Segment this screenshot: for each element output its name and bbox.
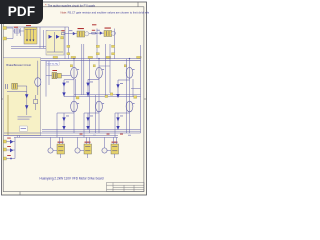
wire vertical x43.5: [43, 30, 45, 48]
wire box drop 2: [19, 136, 21, 138]
wire pad P1 to filter: [7, 27, 14, 29]
rectifier block A1: [24, 27, 37, 44]
opto C1: [52, 72, 61, 78]
wire q4 h113: [57, 112, 74, 114]
wire B1 right: [89, 33, 97, 35]
wire IC2 up3: [89, 137, 91, 144]
net label drop1 a: [67, 45, 70, 47]
net label leg3 gate: [124, 65, 126, 67]
wire R brake bottom: [35, 104, 37, 110]
transistor Q3 top: [126, 67, 133, 78]
relay label: [47, 61, 60, 65]
diode brake 1: [25, 94, 28, 98]
brake box yellow pad mid: [13, 79, 16, 81]
junction leg2 bus: [98, 58, 99, 59]
phase output line b: [74, 94, 141, 96]
zone tick bottom: [19, 192, 21, 195]
wire q4 gate v57: [56, 113, 58, 137]
bus label red 2: [107, 133, 110, 136]
value dash 8: [90, 115, 93, 118]
wire q5 gate v84: [83, 113, 85, 137]
brake booster box: [3, 58, 41, 136]
label A1 red: [26, 25, 31, 26]
label IC3 red: [112, 142, 118, 143]
label R B1 red: [61, 29, 64, 32]
net label bus 5: [137, 56, 142, 58]
transistor Q5 bottom: [96, 101, 103, 112]
filter block L1: [13, 28, 24, 39]
label R B2 red: [92, 29, 95, 32]
wire IC1 up3: [62, 137, 64, 144]
wire IC3 up2: [113, 137, 115, 144]
label box text dash: [21, 127, 26, 130]
opto driver B1: [77, 31, 89, 37]
label F1: [14, 27, 18, 28]
net label drop3 b: [112, 53, 115, 55]
diode chain leg1 bottom: [62, 113, 65, 130]
highlighted wire yellow: [7, 95, 9, 135]
transistor Q7 brake: [35, 78, 41, 87]
transistor IC3 circle: [102, 148, 107, 153]
resistor R B1: [61, 33, 65, 35]
control bus line1: [4, 134, 118, 136]
net label drop2 a: [96, 45, 99, 47]
brake note text line1: [18, 115, 32, 118]
net label drop1 b: [67, 53, 70, 55]
wire h66: [99, 65, 110, 67]
diode chain leg2 bottom: [86, 113, 89, 130]
diode D1: [26, 40, 28, 42]
wire P345 vertical: [14, 137, 16, 158]
value dash 5: [90, 81, 93, 84]
wire U2 internal vertical: [54, 32, 56, 52]
resistor R brake: [34, 100, 38, 104]
svg-text:Brake/Booster Circuit: Brake/Booster Circuit: [6, 63, 31, 67]
diode D2: [29, 40, 31, 42]
bus label red 3: [120, 133, 123, 136]
title block table: [107, 183, 145, 192]
net label phase 3: [134, 96, 137, 99]
phase output line: [64, 96, 141, 98]
wire P3: [6, 141, 15, 143]
wire leg2: [98, 59, 100, 133]
bottom bus line1: [42, 129, 141, 131]
diode B1 input: [73, 32, 76, 35]
wire IC2 down: [87, 154, 89, 158]
gate driver IC1: [57, 144, 65, 154]
bus label blue 2: [128, 134, 131, 137]
wire q6 gate v115: [114, 113, 116, 137]
brake note text line2: [18, 118, 30, 121]
value dash 7: [66, 115, 69, 118]
label B2 red: [105, 28, 111, 29]
gate line v95.5: [95, 95, 97, 133]
label IC1 red: [58, 142, 64, 143]
wire R brake top: [35, 95, 37, 100]
net label bus 4: [106, 56, 111, 58]
wire leg3: [129, 59, 131, 133]
gate line v89.5: [89, 59, 91, 133]
wire B2 right: [115, 32, 118, 34]
bottom bus line0: [42, 130, 141, 132]
value dash 1: [69, 29, 72, 32]
wire P4: [6, 149, 15, 151]
wire IC3 up1: [104, 137, 106, 148]
diode P4: [10, 148, 13, 152]
wire B1 drop: [96, 29, 98, 59]
wire IC1 up2: [59, 137, 61, 144]
bus label blue 1: [93, 134, 96, 137]
wire IC1 up1: [50, 137, 52, 148]
value dash 15: [132, 102, 135, 105]
value dash 11: [102, 68, 105, 71]
value dash 4: [66, 81, 69, 84]
DC bus plus: [4, 58, 141, 60]
brake box yellow pad top: [34, 68, 38, 70]
value dash 10: [77, 68, 80, 71]
junction leg3 bus: [129, 58, 130, 59]
gate driver IC2: [84, 144, 92, 154]
wire IC3 down: [114, 154, 116, 158]
wire B2 drop: [113, 29, 115, 59]
net label bus 3: [88, 56, 93, 58]
bus label red 1: [80, 133, 83, 136]
value dash 3: [92, 24, 96, 25]
control bus line2: [14, 136, 118, 138]
diode chain leg1: [62, 80, 74, 97]
wire IC2 in: [80, 150, 84, 152]
wire vertical x47: [46, 30, 48, 47]
label P4 red: [7, 145, 11, 148]
zone tick right: [144, 98, 147, 100]
wire Q7 vertical: [37, 61, 39, 95]
net label bus 2: [71, 56, 76, 58]
wire leg1: [73, 59, 75, 133]
resistor R B2: [92, 32, 96, 34]
pad U2 right: [61, 37, 64, 39]
wire IC3 in: [107, 150, 111, 152]
zone tick left: [2, 98, 4, 100]
label B1 red: [78, 28, 84, 29]
transistor IC1 circle: [48, 148, 53, 153]
net label bus 1: [53, 56, 58, 58]
wire IC3 up3: [116, 137, 118, 144]
PDF badge: [0, 0, 43, 24]
opto brake: [6, 83, 18, 89]
transistor IC2 circle: [75, 148, 80, 153]
net label phase 2b: [105, 95, 108, 97]
diode D5: [56, 35, 60, 39]
wire B1 left: [70, 33, 78, 35]
diode chain leg3: [116, 80, 129, 98]
wire below A1 lower: [11, 47, 60, 49]
wire box drop 1: [16, 136, 18, 138]
wire C1 left: [46, 75, 52, 77]
net label phase 1: [76, 96, 79, 99]
gate driver IC3: [111, 144, 119, 154]
transistor Q4 bottom: [71, 101, 78, 112]
diode B2 input: [100, 31, 103, 34]
wire vertical x65: [64, 27, 66, 59]
net label leg2 gate: [93, 65, 95, 67]
opto driver B2: [104, 31, 116, 37]
junction leg1 bus: [73, 58, 74, 59]
gate line pair 2: [105, 44, 107, 97]
wire brake opto out: [17, 85, 26, 87]
gate line v126.5: [126, 59, 128, 133]
diode brake 2: [25, 105, 28, 109]
gate line pair 1: [81, 44, 83, 95]
diode P3: [10, 140, 13, 144]
value dash 9: [120, 115, 123, 118]
wire R B1: [65, 33, 70, 35]
wire vertical x40: [39, 27, 41, 48]
diode D4: [49, 35, 53, 39]
connector pad P5: [3, 157, 6, 160]
bottom bus line2: [4, 132, 141, 134]
wire v46: [45, 61, 47, 97]
connector pad P1: [3, 27, 7, 30]
wire vertical x68.5: [68, 27, 70, 59]
terminal label box: [20, 126, 28, 131]
transistor Q6 bottom: [126, 101, 133, 112]
wire q6 h113: [115, 112, 130, 114]
svg-text:Note: R5,C7 gate resistor and: Note: R5,C7 gate resistor and snubber va…: [61, 10, 150, 14]
wire below A1 upper: [11, 46, 60, 48]
value dash 2: [97, 29, 100, 32]
wire IC1 down: [60, 154, 62, 158]
sheet frame outer: [2, 2, 147, 195]
wire IC2 up2: [86, 137, 88, 144]
gate line v140.5: [140, 45, 142, 133]
soft start box U2: [46, 31, 64, 56]
svg-text:The author supplies circuit fo: The author supplies circuit for FYI goal…: [48, 3, 96, 7]
zone tick top: [137, 2, 139, 7]
sheet frame inner: [3, 7, 144, 192]
wire U2 internal bottom: [47, 51, 63, 53]
wire R B2: [95, 32, 99, 34]
wire C1 out: [61, 75, 70, 77]
net label drop3 a: [112, 45, 115, 47]
DC bus minus: [4, 60, 141, 62]
transistor Q1 top: [71, 67, 78, 78]
label IC2 red: [85, 142, 91, 143]
diode D3: [32, 40, 34, 42]
wire brake v26.8: [26, 86, 28, 115]
diode chain leg3 bottom: [116, 113, 119, 130]
wire q5 h113: [84, 112, 99, 114]
wire inside highlight: [7, 95, 9, 135]
junction P5: [10, 158, 12, 160]
value dash 6: [120, 82, 123, 85]
connector pad P4: [3, 148, 6, 151]
page background: [0, 0, 149, 198]
wire brake h91: [7, 91, 27, 93]
value dash 13: [77, 102, 80, 105]
wire IC1 in: [53, 150, 57, 152]
label P5 red: [7, 154, 11, 157]
wire leg1 aux vertical: [75, 79, 77, 97]
label C1 red: [52, 70, 57, 71]
connector pad P3: [3, 140, 6, 143]
diode chain leg2: [86, 79, 99, 96]
wire IC2 up1: [77, 137, 79, 148]
net label phase 2: [110, 93, 113, 95]
wire leg3 aux vertical: [132, 79, 134, 97]
connector pad P2: [3, 37, 7, 40]
net label drop2 b: [96, 53, 99, 55]
wire B2 left: [99, 32, 104, 34]
wire v49: [48, 61, 50, 85]
phase tap 3: [131, 88, 141, 90]
value dash 14: [102, 102, 105, 105]
svg-text:Huanyang 2.2kW 110V VFD Mot: Huanyang 2.2kW 110V VFD Motor Drive boar…: [40, 175, 104, 180]
transistor Q2 top: [96, 67, 103, 78]
value dash 12: [132, 68, 135, 71]
label P3 red: [7, 137, 11, 140]
net label leg1 gate: [70, 65, 72, 67]
wire pad P2 to filter: [7, 38, 14, 40]
wire top rail: [4, 26, 69, 28]
wire P5: [6, 158, 15, 160]
